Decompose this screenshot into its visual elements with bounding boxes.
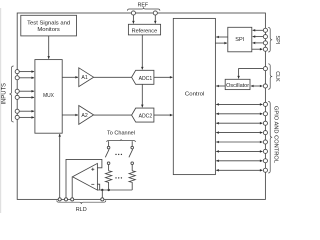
SPI pin 1 [263, 28, 267, 32]
GPIO pin 1 [263, 102, 267, 106]
REF pin 2 [153, 11, 157, 15]
input pin IN1 [15, 70, 19, 74]
GPIO pin 7 [263, 159, 267, 163]
wire GPIO row2 [216, 113, 262, 115]
brace SPI [268, 28, 272, 53]
svg-text:GPIO AND CONTROL: GPIO AND CONTROL [273, 106, 279, 163]
wire GPIO row6 [216, 150, 262, 152]
svg-text:Monitors: Monitors [37, 27, 60, 33]
RLD pin 2 [64, 198, 67, 201]
wire GPIO row7 [216, 160, 262, 162]
input pin IN6 [15, 115, 19, 119]
wire Oscillator to Control [216, 85, 225, 87]
switch S1 [105, 141, 110, 171]
wire ADC1 to Control [154, 76, 173, 78]
wire summing rail [97, 189, 132, 191]
wire ADC2 to Control [154, 114, 173, 116]
wire Test box to MUX [48, 36, 50, 59]
wire SPI pin1 [253, 29, 264, 31]
CLK pin 1 [263, 67, 267, 71]
resistor R2 [129, 171, 135, 190]
svg-text:Oscillator: Oscillator [226, 83, 249, 89]
wire IN4 to MUX [19, 96, 34, 98]
op-amp U1 [73, 163, 98, 190]
wire A1 to ADC1 [94, 76, 132, 78]
SPI pin 3 [263, 41, 267, 45]
wire SPI to Control [216, 36, 228, 38]
wire GPIO row8 [216, 169, 262, 171]
box SPI [228, 27, 252, 52]
dots between resistors [115, 177, 116, 178]
box Reference [128, 24, 160, 35]
switch S2 [129, 141, 134, 171]
box: Test Signals and Monitors [21, 15, 77, 36]
svg-text:ADC2: ADC2 [139, 114, 153, 120]
wire GPIO row1 [216, 103, 262, 105]
svg-text:MUX: MUX [43, 93, 54, 99]
wire MUX to A1 [62, 76, 78, 78]
wire IN6 to MUX [19, 116, 34, 118]
wire Oscillator to CLK pin2 [251, 85, 263, 87]
svg-text:Reference: Reference [132, 29, 158, 35]
ADC1 block [132, 70, 154, 84]
GPIO pin 8 [263, 168, 267, 172]
CLK pin 2 [263, 84, 267, 88]
wire op-amp inverting input [97, 184, 99, 190]
svg-text:RLD: RLD [76, 207, 87, 213]
brace REF [127, 7, 160, 11]
RLD pin 1 [58, 198, 61, 201]
box Control [173, 18, 215, 174]
wire MUX to A2 [62, 114, 78, 116]
wire REF pin1 to Reference [132, 15, 134, 23]
resistor R1 [106, 171, 112, 190]
wire RLD pin1 to MUX [59, 134, 61, 198]
svg-text:SPI: SPI [235, 37, 244, 43]
wire Reference to ADC1 [141, 35, 143, 70]
brace RLD [57, 200, 106, 204]
brace CLK [268, 64, 272, 90]
wire SPI pin3 [253, 42, 264, 44]
svg-text:REF: REF [138, 3, 149, 9]
junction dot A [101, 189, 103, 191]
wire rail to RLD pin4 [101, 190, 103, 198]
wire IN1 to MUX [19, 71, 34, 73]
REF pin 1 [131, 11, 135, 15]
label op-amp plus [91, 168, 94, 171]
svg-text:A1: A1 [81, 75, 87, 81]
svg-text:INPUTS: INPUTS [1, 83, 8, 105]
wire IN5 to MUX [19, 110, 34, 112]
label op-amp minus [91, 183, 94, 185]
input pin IN5 [15, 109, 19, 113]
wire IN3 to MUX [19, 90, 34, 92]
wire op-amp output to RLD pin3 [71, 177, 73, 198]
dots between switches [115, 154, 122, 179]
svg-text:SPI: SPI [274, 36, 280, 45]
wire SPI pin4 [252, 48, 263, 50]
wire ADC1 to ADC2 [141, 84, 143, 107]
input pin IN2 [15, 76, 19, 80]
amplifier A2 [79, 106, 94, 125]
input pin IN3 [15, 89, 19, 93]
outer border [17, 13, 265, 199]
svg-text:A2: A2 [81, 113, 87, 119]
box Oscillator [225, 79, 250, 89]
input pin IN4 [15, 95, 19, 99]
GPIO pin 6 [263, 149, 267, 153]
SPI pin 2 [263, 35, 267, 39]
RLD pin 4 [101, 198, 104, 201]
wire Control to SPI [215, 42, 227, 44]
wire REF pin2 to Reference [154, 15, 156, 23]
page edge artifact [0, 8, 2, 213]
ADC2 block [132, 108, 154, 122]
GPIO pin 5 [263, 140, 267, 144]
svg-text:Test Signals and: Test Signals and [27, 20, 70, 26]
svg-text:CLK: CLK [274, 71, 280, 82]
wire CLK pin1 to Oscillator [239, 69, 264, 79]
GPIO pin 3 [263, 121, 267, 125]
GPIO pin 2 [263, 112, 267, 116]
amplifier A1 [79, 68, 94, 87]
GPIO pin 4 [263, 131, 267, 135]
wire A2 to ADC2 [94, 114, 132, 116]
wire GPIO row5 [216, 141, 262, 143]
RLD pin 3 [71, 198, 74, 201]
wire SPI pin2 [253, 36, 264, 38]
wire GPIO row4 [216, 132, 262, 134]
brace INPUTS [9, 66, 13, 122]
brace To Channel [107, 139, 136, 142]
wire GPIO row3 [216, 122, 262, 124]
SPI pin 4 [263, 47, 267, 51]
brace GPIO [268, 102, 272, 174]
junction dot B [108, 189, 110, 191]
box MUX [35, 60, 62, 134]
wire RLD pin2 feedback loop [66, 159, 102, 198]
svg-text:Control: Control [185, 92, 204, 98]
wire IN2 to MUX [19, 77, 34, 79]
svg-text:ADC1: ADC1 [139, 76, 153, 82]
svg-text:To Channel: To Channel [107, 131, 135, 137]
